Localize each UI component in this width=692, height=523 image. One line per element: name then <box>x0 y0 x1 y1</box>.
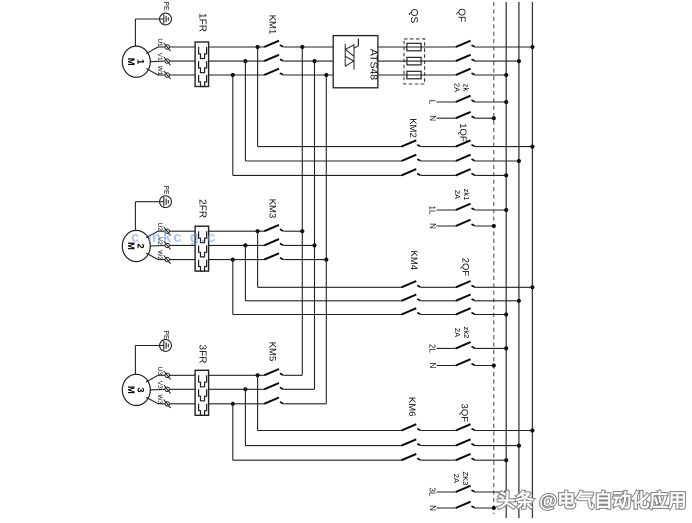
svg-text:W1: W1 <box>156 66 163 76</box>
svg-text:1FR: 1FR <box>196 13 207 32</box>
svg-text:L: L <box>427 100 436 105</box>
svg-text:N: N <box>428 505 437 511</box>
svg-text:W3: W3 <box>156 394 163 404</box>
svg-text:N: N <box>428 223 437 229</box>
svg-text:ATS48: ATS48 <box>368 49 380 80</box>
svg-text:zk2: zk2 <box>462 327 471 339</box>
svg-text:3QF: 3QF <box>459 404 470 423</box>
svg-text:N: N <box>428 115 437 121</box>
svg-text:2FR: 2FR <box>196 199 207 218</box>
svg-text:KM4: KM4 <box>408 251 419 271</box>
svg-text:3L: 3L <box>427 488 436 497</box>
svg-text:V1: V1 <box>156 53 163 61</box>
svg-text:W2: W2 <box>156 250 163 260</box>
svg-text:U1: U1 <box>156 38 163 47</box>
svg-text:2A: 2A <box>453 328 462 337</box>
svg-text:2QF: 2QF <box>460 258 471 277</box>
svg-text:QS: QS <box>408 9 419 24</box>
svg-text:2A: 2A <box>453 83 462 92</box>
svg-text:2A: 2A <box>453 190 462 199</box>
svg-text:zk: zk <box>461 84 470 92</box>
svg-text:KM2: KM2 <box>407 118 418 138</box>
svg-text:1L: 1L <box>427 206 436 215</box>
svg-text:ZK3: ZK3 <box>461 472 470 486</box>
svg-text:M: M <box>125 58 136 66</box>
svg-text:3FR: 3FR <box>196 345 207 364</box>
svg-text:KM5: KM5 <box>266 342 277 362</box>
svg-text:头条 @电气自动化应用: 头条 @电气自动化应用 <box>497 490 687 511</box>
svg-text:2A: 2A <box>452 474 461 483</box>
svg-text:2L: 2L <box>427 344 436 353</box>
svg-text:c mkc g.c: c mkc g.c <box>131 229 217 246</box>
svg-text:PE: PE <box>162 1 169 11</box>
svg-text:V3: V3 <box>156 381 163 389</box>
svg-text:PE: PE <box>162 330 169 340</box>
svg-text:zk1: zk1 <box>462 189 471 201</box>
svg-text:N: N <box>428 363 437 369</box>
svg-text:PE: PE <box>162 185 169 195</box>
svg-text:KM3: KM3 <box>266 199 277 219</box>
svg-text:KM1: KM1 <box>266 15 277 35</box>
svg-text:1QF: 1QF <box>457 123 468 142</box>
svg-text:KM6: KM6 <box>406 397 417 417</box>
svg-text:M: M <box>125 386 136 394</box>
svg-text:QF: QF <box>456 8 467 22</box>
svg-text:U3: U3 <box>156 367 163 376</box>
